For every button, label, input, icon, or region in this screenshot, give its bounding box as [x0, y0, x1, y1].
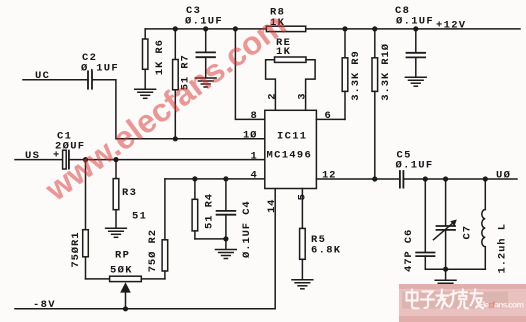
- junction rail/C3: [203, 26, 208, 31]
- capacitor C1 electrolytic: [63, 150, 69, 169]
- svg-text:5: 5: [296, 193, 308, 200]
- potentiometer RP 50K: [110, 276, 165, 309]
- ground of C4: [216, 250, 237, 259]
- wire UC input: [23, 79, 88, 81]
- junction rail/pin8 wire: [233, 26, 238, 31]
- wire pin12 line: [316, 178, 400, 180]
- svg-text:UØ: UØ: [496, 169, 511, 181]
- labels rotated: [70, 39, 509, 273]
- hanzi 子: [421, 292, 434, 308]
- svg-text:-8V: -8V: [33, 299, 56, 311]
- svg-text:51 R4: 51 R4: [203, 193, 215, 229]
- junction rail/R10: [372, 26, 377, 31]
- ground of C8: [405, 77, 426, 86]
- junction pin4 line/R4: [192, 176, 197, 181]
- resistor R1: [83, 160, 110, 279]
- svg-text:UC: UC: [35, 70, 50, 82]
- ground of R5: [292, 280, 313, 289]
- logo text 电子发烧友 (drawn strokes): [407, 289, 483, 308]
- svg-text:R3: R3: [122, 187, 137, 199]
- resistor R2: [162, 179, 168, 279]
- junction US line/R1: [83, 157, 88, 162]
- wire top rail left segment (R6 to R8): [145, 28, 266, 30]
- svg-text:IC11: IC11: [277, 130, 307, 142]
- svg-text:RP: RP: [115, 250, 130, 262]
- svg-text:14: 14: [266, 199, 278, 213]
- wire US line to pin 1: [69, 159, 265, 161]
- junction pin12 line/R10: [372, 176, 377, 181]
- svg-text:1.2uh L: 1.2uh L: [497, 223, 509, 273]
- inductor L 1.2uH: [482, 179, 486, 269]
- resistor R9: [316, 29, 347, 120]
- svg-text:4: 4: [251, 170, 258, 182]
- hanzi 友: [471, 289, 483, 308]
- wire tank bottom: [425, 268, 485, 270]
- svg-text:75ØR1: 75ØR1: [70, 232, 82, 268]
- resistor R8: [266, 26, 305, 31]
- svg-text:1K R6: 1K R6: [154, 39, 166, 75]
- junction pin4 line/C4: [223, 176, 228, 181]
- resistor R3: [113, 160, 119, 228]
- logo banner elecfans: [399, 284, 526, 322]
- resistor R5: [300, 189, 306, 280]
- wire pin8 from rail: [235, 29, 264, 120]
- svg-text:Ø.1UF: Ø.1UF: [396, 15, 434, 27]
- resistor R4: [192, 179, 226, 239]
- svg-text:1K: 1K: [276, 46, 291, 58]
- svg-text:75Ø R2: 75Ø R2: [147, 229, 159, 272]
- svg-text:2: 2: [266, 93, 278, 100]
- svg-text:3.3K R9: 3.3K R9: [350, 50, 362, 100]
- junction -8V rail/RP wiper: [123, 306, 128, 311]
- capacitor C3: [196, 29, 215, 78]
- capacitor C6: [416, 179, 434, 269]
- svg-text:6.8K: 6.8K: [311, 245, 341, 257]
- wire top rail right segment (R8 to +12V): [306, 28, 520, 30]
- junction rail/R9: [342, 26, 347, 31]
- junction pin10 line/R7: [173, 136, 178, 141]
- svg-text:+: +: [53, 149, 61, 161]
- ground of R3: [106, 228, 127, 237]
- svg-text:C7: C7: [462, 225, 474, 239]
- hanzi 发: [437, 290, 449, 309]
- svg-text:12: 12: [322, 170, 336, 182]
- capacitor C7 variable: [434, 179, 457, 269]
- svg-text:Ø.1UF C4: Ø.1UF C4: [241, 200, 253, 258]
- junction US line/R3: [113, 157, 118, 162]
- ground of C3: [195, 78, 216, 87]
- svg-text:Ø.1UF: Ø.1UF: [81, 63, 119, 75]
- wire pin4 line: [165, 178, 265, 180]
- junction tank bottom/ground: [443, 267, 448, 272]
- resistor RE between pins 2 and 3: [266, 57, 316, 110]
- svg-text:MC1496: MC1496: [267, 150, 313, 162]
- capacitor C4: [217, 179, 236, 249]
- svg-text:Elecfans.com: Elecfans.com: [478, 300, 524, 310]
- capacitor C2: [88, 71, 92, 88]
- svg-text:6: 6: [325, 110, 332, 122]
- svg-text:47P C6: 47P C6: [403, 229, 415, 272]
- wire US input: [15, 159, 63, 161]
- hanzi 烧: [450, 289, 468, 308]
- junction R4-C4 bottom: [223, 236, 228, 241]
- svg-text:51: 51: [132, 210, 147, 222]
- svg-text:Ø.1UF: Ø.1UF: [396, 160, 434, 172]
- ground of tank: [445, 269, 447, 279]
- ground of R6: [135, 89, 156, 98]
- junction output/C7: [443, 176, 448, 181]
- svg-text:1Ø: 1Ø: [243, 129, 257, 141]
- svg-text:8: 8: [251, 110, 258, 122]
- wire -8V rail and pin14: [15, 189, 275, 309]
- wire C2 to pin10: [92, 80, 265, 139]
- svg-text:Ø.1UF: Ø.1UF: [185, 15, 223, 27]
- resistor R6: [143, 29, 148, 89]
- junction rail/R7: [173, 26, 178, 31]
- junction output/L: [483, 176, 488, 181]
- hanzi 电: [407, 290, 419, 309]
- svg-text:3.3K R1Ø: 3.3K R1Ø: [380, 43, 392, 101]
- resistor R10: [372, 29, 378, 179]
- resistor R7: [173, 29, 179, 139]
- capacitor C5: [400, 171, 404, 188]
- wire output line to U0: [403, 178, 517, 180]
- svg-text:1: 1: [251, 150, 258, 162]
- junction output/C6: [423, 176, 428, 181]
- svg-text:+12V: +12V: [436, 19, 466, 31]
- svg-text:5ØK: 5ØK: [110, 264, 133, 276]
- capacitor C8: [407, 29, 426, 77]
- junction rail/C8: [413, 26, 418, 31]
- svg-text:3: 3: [296, 93, 308, 100]
- IC IC11 MC1496 body: [265, 110, 317, 188]
- svg-text:US: US: [25, 150, 40, 162]
